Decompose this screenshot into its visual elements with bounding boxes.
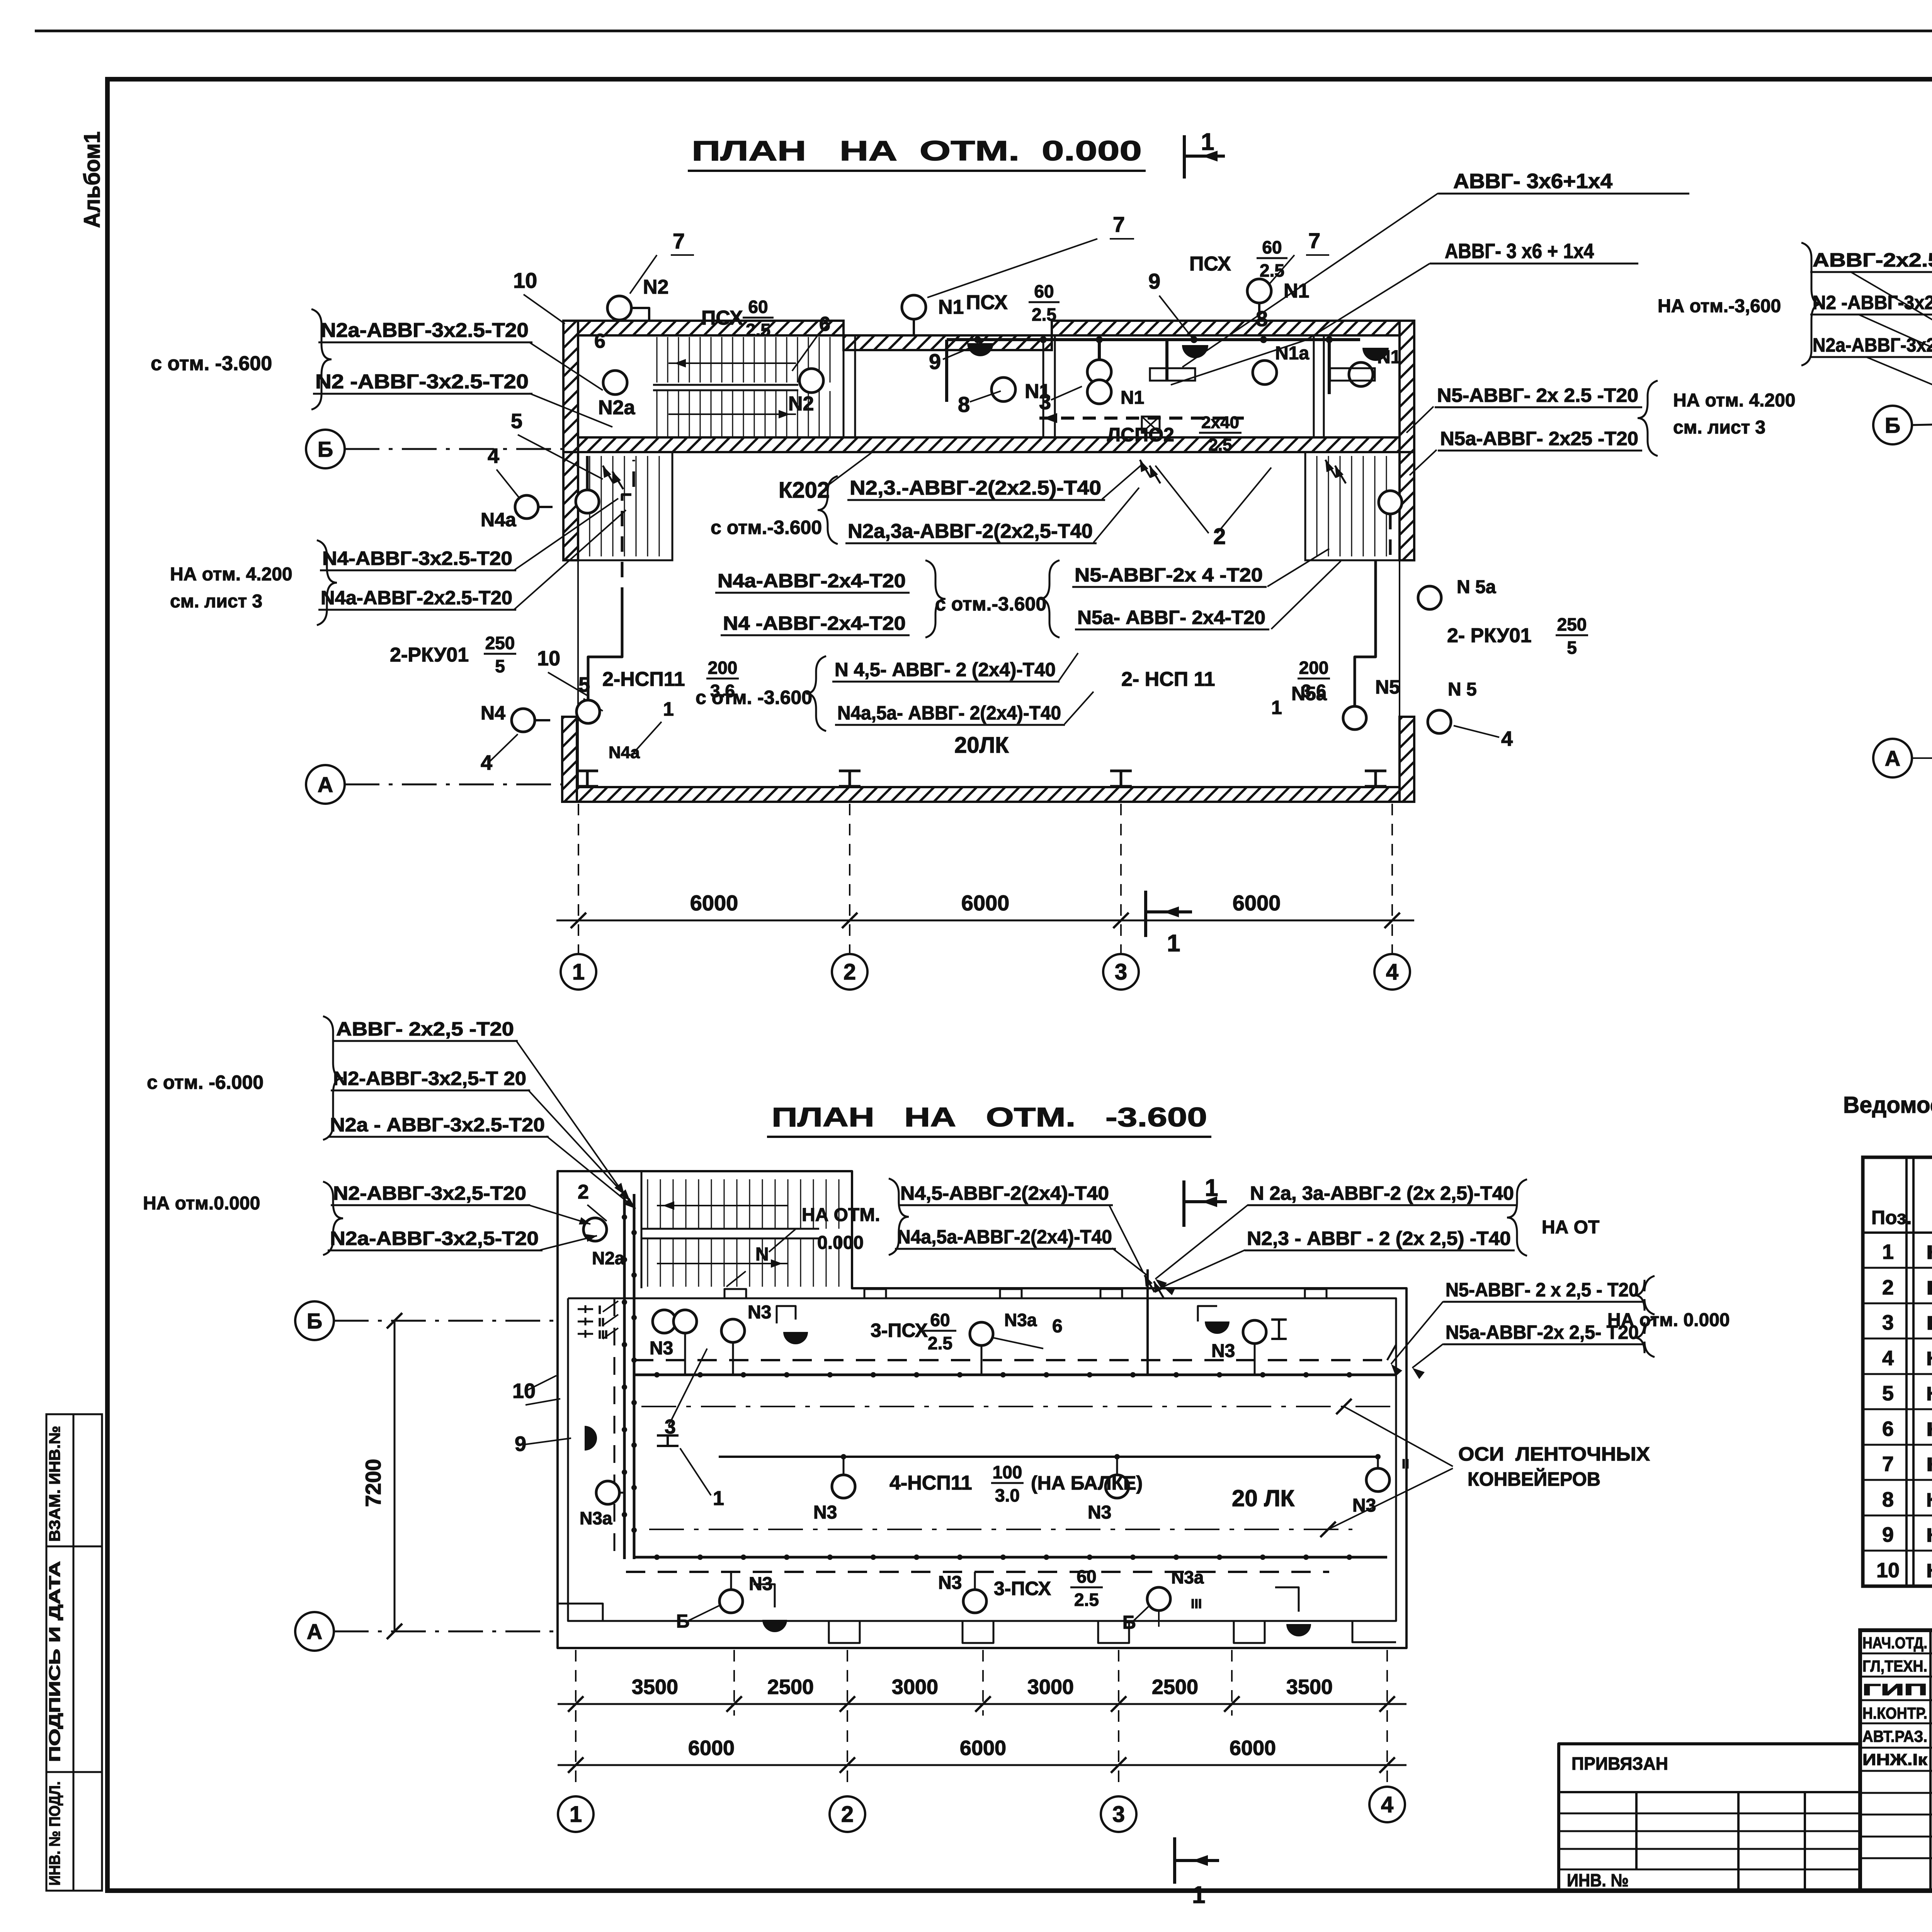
svg-text:N2: N2	[643, 276, 668, 298]
svg-text:1: 1	[1167, 930, 1180, 957]
svg-text:Комплект установки выключа: Комплект установки выключателя 0-I-IР 44…	[1926, 1560, 1932, 1582]
svg-text:200: 200	[708, 658, 738, 678]
svg-text:20ЛК: 20ЛК	[954, 733, 1009, 758]
svg-text:Концевое крепление троса к: Концевое крепление троса к железобетонно…	[1926, 1242, 1932, 1263]
svg-text:ВЗАМ. ИНВ.№: ВЗАМ. ИНВ.№	[46, 1426, 63, 1542]
svg-text:N4-АВВГ-3х2.5-Т20: N4-АВВГ-3х2.5-Т20	[322, 548, 512, 569]
svg-text:ПРИВЯЗАН: ПРИВЯЗАН	[1571, 1753, 1668, 1774]
svg-text:N2а-АВВГ-3х2,5-Т20: N2а-АВВГ-3х2,5-Т20	[1813, 334, 1932, 356]
svg-text:Ведомость узлов установки: Ведомость узлов установки электрического…	[1843, 1092, 1932, 1118]
svg-text:60: 60	[1077, 1566, 1096, 1587]
svg-text:20 ЛК: 20 ЛК	[1232, 1485, 1295, 1511]
svg-text:N5а-АВВГ- 2х25 -Т20: N5а-АВВГ- 2х25 -Т20	[1440, 428, 1638, 449]
svg-text:N3: N3	[748, 1302, 771, 1323]
svg-text:НА ОТ: НА ОТ	[1542, 1217, 1599, 1238]
svg-text:Комплект установки ящика ЯТ: Комплект установки ящика ЯТП- 0.25 НА СТ…	[1926, 1312, 1932, 1334]
svg-text:3000: 3000	[892, 1675, 938, 1699]
svg-text:N4а: N4а	[609, 743, 640, 762]
svg-text:Б: Б	[1122, 1612, 1136, 1633]
svg-text:3-ПСХ: 3-ПСХ	[871, 1320, 928, 1341]
svg-text:5: 5	[1567, 638, 1577, 658]
svg-text:6000: 6000	[961, 891, 1010, 915]
svg-text:N2а - АВВГ-3х2.5-Т20: N2а - АВВГ-3х2.5-Т20	[330, 1114, 545, 1136]
svg-text:НА отм. 4.200: НА отм. 4.200	[1673, 390, 1796, 411]
svg-text:1: 1	[570, 1802, 582, 1827]
svg-text:3.0: 3.0	[995, 1485, 1020, 1505]
svg-text:Комплект установки светиль: Комплект установки светильника ПСХ-60 НА…	[1926, 1418, 1932, 1440]
svg-text:2: 2	[1882, 1276, 1894, 1299]
svg-text:N2а: N2а	[592, 1248, 625, 1268]
svg-text:5: 5	[1882, 1382, 1894, 1405]
svg-text:III: III	[598, 1328, 608, 1341]
svg-text:ИНВ. №: ИНВ. №	[1567, 1870, 1629, 1890]
svg-text:N2,3.-АВВГ-2(2х2.5)-Т40: N2,3.-АВВГ-2(2х2.5)-Т40	[850, 477, 1101, 499]
svg-text:Б: Б	[318, 437, 333, 461]
svg-text:6: 6	[1882, 1417, 1894, 1440]
svg-text:1: 1	[663, 698, 674, 720]
svg-text:7200: 7200	[361, 1459, 385, 1507]
svg-text:Альбом1: Альбом1	[80, 131, 105, 228]
svg-text:9: 9	[1148, 269, 1160, 293]
svg-text:N4 -АВВГ-2х4-Т20: N4 -АВВГ-2х4-Т20	[723, 612, 906, 634]
svg-text:10: 10	[537, 647, 560, 670]
svg-text:4: 4	[1386, 959, 1398, 985]
svg-text:9: 9	[929, 349, 941, 374]
svg-text:N3: N3	[1352, 1495, 1376, 1516]
svg-text:N3: N3	[938, 1573, 962, 1593]
svg-text:N2а,3а-АВВГ-2(2х2,5-Т40: N2а,3а-АВВГ-2(2х2,5-Т40	[848, 520, 1093, 543]
svg-text:А: А	[318, 772, 333, 797]
svg-text:II: II	[598, 1316, 605, 1329]
svg-text:3500: 3500	[1286, 1675, 1333, 1699]
svg-text:N 4,5- АВВГ- 2 (2х4)-Т40: N 4,5- АВВГ- 2 (2х4)-Т40	[835, 659, 1056, 680]
svg-text:3: 3	[1882, 1311, 1894, 1334]
svg-text:ЛСПО2: ЛСПО2	[1107, 424, 1174, 446]
svg-text:N1а: N1а	[1275, 343, 1309, 364]
svg-text:N 5: N 5	[1448, 679, 1477, 700]
svg-text:2: 2	[578, 1181, 589, 1203]
svg-text:N3а: N3а	[1171, 1567, 1204, 1587]
svg-text:2: 2	[1213, 524, 1226, 549]
svg-text:с отм.-3.600: с отм.-3.600	[711, 517, 822, 538]
svg-text:ИНЖ.Iк: ИНЖ.Iк	[1862, 1750, 1928, 1769]
svg-text:1: 1	[713, 1487, 724, 1510]
svg-text:N5а- АВВГ- 2х4-Т20: N5а- АВВГ- 2х4-Т20	[1077, 607, 1265, 628]
svg-text:Комплект установки щитка ЯО: Комплект установки щитка ЯОУ- 850I НА СТ…	[1926, 1277, 1932, 1299]
svg-text:АВВГ- 2х2,5 -Т20: АВВГ- 2х2,5 -Т20	[336, 1018, 514, 1040]
svg-text:АВВГ-2х2.5-Т20: АВВГ-2х2.5-Т20	[1813, 249, 1932, 271]
svg-text:1: 1	[1205, 1175, 1218, 1201]
svg-text:6: 6	[594, 330, 605, 352]
svg-text:2-НСП11: 2-НСП11	[602, 668, 685, 690]
svg-text:4: 4	[488, 444, 499, 468]
svg-text:N: N	[755, 1244, 769, 1265]
svg-text:6000: 6000	[688, 1736, 735, 1760]
svg-text:3-ПСХ: 3-ПСХ	[994, 1578, 1051, 1599]
svg-text:ОСИ ЛЕНТОЧНЫХ: ОСИ ЛЕНТОЧНЫХ	[1458, 1443, 1650, 1465]
svg-text:9: 9	[515, 1432, 526, 1456]
svg-text:с отм. -3.600: с отм. -3.600	[696, 687, 812, 708]
svg-text:2500: 2500	[767, 1675, 814, 1699]
svg-text:ПОДПИСЬ И ДАТА: ПОДПИСЬ И ДАТА	[46, 1561, 63, 1762]
svg-text:6000: 6000	[690, 891, 738, 915]
svg-text:1: 1	[1271, 697, 1282, 718]
svg-text:N3: N3	[813, 1502, 837, 1523]
svg-text:2х40: 2х40	[1201, 413, 1239, 432]
svg-text:N 2а, 3а-АВВГ-2 (2х 2,5)-Т40: N 2а, 3а-АВВГ-2 (2х 2,5)-Т40	[1250, 1182, 1514, 1204]
svg-text:2.5: 2.5	[1260, 260, 1284, 281]
svg-text:N2а-АВВГ-3х2,5-Т20: N2а-АВВГ-3х2,5-Т20	[330, 1228, 539, 1249]
svg-text:7: 7	[1113, 212, 1125, 236]
svg-text:3: 3	[1115, 959, 1127, 985]
svg-text:АВВГ- 3х6+1х4: АВВГ- 3х6+1х4	[1453, 170, 1612, 193]
svg-text:6: 6	[819, 313, 830, 335]
svg-text:6000: 6000	[1230, 1736, 1276, 1760]
svg-text:НА отм.-3,600: НА отм.-3,600	[1658, 296, 1781, 316]
svg-text:N2 -АВВГ-3х2.5-Т20: N2 -АВВГ-3х2.5-Т20	[1813, 292, 1932, 313]
svg-text:НА ОТМ.: НА ОТМ.	[802, 1205, 880, 1225]
svg-text:2.5: 2.5	[1032, 304, 1056, 325]
svg-text:4-НСП11: 4-НСП11	[889, 1472, 972, 1494]
svg-text:ИНВ. № ПОДЛ.: ИНВ. № ПОДЛ.	[46, 1781, 63, 1886]
svg-text:2: 2	[844, 959, 856, 985]
svg-text:N5-АВВГ-2х 4 -Т20: N5-АВВГ-2х 4 -Т20	[1075, 564, 1263, 586]
svg-text:ПСХ: ПСХ	[1189, 253, 1231, 275]
svg-text:N4а-АВВГ-2х4-Т20: N4а-АВВГ-2х4-Т20	[718, 570, 906, 592]
svg-text:АВВГ- 3 х6 + 1х4: АВВГ- 3 х6 + 1х4	[1445, 240, 1594, 263]
svg-text:N3а: N3а	[580, 1508, 612, 1528]
svg-text:N4а,5а- АВВГ- 2(2х4)-Т40: N4а,5а- АВВГ- 2(2х4)-Т40	[837, 702, 1061, 724]
svg-text:ПСХ: ПСХ	[966, 291, 1008, 314]
svg-text:НА отм. 0.000: НА отм. 0.000	[1607, 1310, 1730, 1330]
svg-text:N4а: N4а	[481, 509, 517, 531]
svg-text:N2-АВВГ-3х2,5-Т 20: N2-АВВГ-3х2,5-Т 20	[333, 1068, 526, 1089]
svg-text:N4а-АВВГ-2х2.5-Т20: N4а-АВВГ-2х2.5-Т20	[321, 587, 512, 609]
svg-text:2-РКУ01: 2-РКУ01	[390, 644, 469, 666]
svg-text:60: 60	[930, 1310, 950, 1330]
svg-text:N1: N1	[1121, 388, 1144, 408]
svg-text:N3а: N3а	[1004, 1310, 1037, 1330]
svg-text:N2 -АВВГ-3х2.5-Т20: N2 -АВВГ-3х2.5-Т20	[315, 371, 529, 393]
svg-text:10: 10	[1876, 1559, 1900, 1582]
svg-text:II: II	[1402, 1457, 1409, 1471]
svg-text:НАЧ.ОТД.: НАЧ.ОТД.	[1862, 1634, 1927, 1652]
svg-text:Поз.: Поз.	[1871, 1207, 1912, 1228]
svg-text:1: 1	[1192, 1882, 1205, 1908]
svg-text:5: 5	[511, 410, 522, 433]
svg-text:2: 2	[841, 1802, 854, 1827]
svg-text:8: 8	[1882, 1488, 1894, 1511]
svg-text:2- НСП 11: 2- НСП 11	[1121, 668, 1215, 690]
svg-text:N4а,5а-АВВГ-2(2х4)-Т40: N4а,5а-АВВГ-2(2х4)-Т40	[897, 1226, 1112, 1248]
svg-text:7: 7	[1308, 228, 1320, 253]
svg-text:см. лист 3: см. лист 3	[170, 591, 262, 612]
svg-text:5: 5	[495, 656, 505, 676]
svg-text:Комплект установки светильни: Комплект установки светильника НСП 11 - …	[1926, 1489, 1932, 1511]
svg-text:Б: Б	[307, 1309, 322, 1333]
svg-text:60: 60	[1262, 237, 1282, 257]
svg-text:7: 7	[1882, 1452, 1894, 1476]
svg-text:N2-АВВГ-3х2,5-Т20: N2-АВВГ-3х2,5-Т20	[333, 1182, 526, 1204]
svg-text:250: 250	[485, 633, 515, 653]
svg-text:2500: 2500	[1152, 1675, 1198, 1699]
svg-text:8: 8	[958, 392, 970, 417]
svg-text:ПСХ: ПСХ	[701, 307, 743, 329]
svg-text:Комплект установки светильни: Комплект установки светильника НСП11- 20…	[1926, 1383, 1932, 1405]
svg-text:3: 3	[1039, 389, 1051, 414]
svg-text:Б: Б	[1885, 413, 1900, 437]
svg-text:200: 200	[1299, 658, 1329, 678]
svg-text:Комплект наружной установк: Комплект наружной установки светильника …	[1926, 1454, 1932, 1475]
svg-text:2.5: 2.5	[928, 1333, 952, 1353]
svg-text:9: 9	[1882, 1523, 1894, 1546]
svg-text:N2: N2	[788, 393, 814, 415]
svg-text:4: 4	[1501, 727, 1513, 750]
svg-text:А: А	[307, 1619, 322, 1644]
svg-text:N2,3 - АВВГ - 2 (2х 2,5) -Т40: N2,3 - АВВГ - 2 (2х 2,5) -Т40	[1247, 1228, 1511, 1249]
svg-text:4: 4	[1882, 1347, 1894, 1370]
svg-text:60: 60	[748, 297, 768, 317]
svg-text:N5: N5	[1375, 676, 1400, 698]
svg-text:3: 3	[1112, 1802, 1125, 1827]
svg-text:Комплект установки светильни: Комплект установки светильника РКУ0I - 2…	[1926, 1348, 1932, 1369]
svg-text:Б: Б	[676, 1611, 690, 1632]
svg-text:10: 10	[512, 1379, 536, 1403]
svg-text:N2а-АВВГ-3х2.5-Т20: N2а-АВВГ-3х2.5-Т20	[321, 319, 529, 342]
svg-text:(НА БАЛКЕ): (НА БАЛКЕ)	[1031, 1472, 1143, 1494]
svg-text:7: 7	[673, 229, 685, 253]
svg-text:N2а: N2а	[598, 396, 635, 419]
svg-text:10: 10	[513, 268, 537, 293]
svg-text:N5а: N5а	[1291, 683, 1327, 704]
svg-text:2.5: 2.5	[1074, 1590, 1099, 1610]
svg-text:1: 1	[1201, 129, 1214, 155]
svg-text:К202: К202	[779, 478, 830, 503]
svg-text:4: 4	[481, 751, 492, 774]
svg-text:2.5: 2.5	[1208, 435, 1232, 454]
svg-text:7200: 7200	[1930, 539, 1932, 587]
svg-text:N4,5-АВВГ-2(2х4)-Т40: N4,5-АВВГ-2(2х4)-Т40	[900, 1182, 1109, 1204]
svg-text:III: III	[1191, 1597, 1202, 1611]
svg-text:с отм. -6.000: с отм. -6.000	[147, 1071, 264, 1093]
svg-text:А: А	[1885, 746, 1900, 770]
svg-text:Н.КОНТР.: Н.КОНТР.	[1862, 1704, 1927, 1722]
svg-text:N 5а: N 5а	[1457, 577, 1496, 597]
svg-text:N3: N3	[650, 1338, 673, 1359]
svg-text:0.000: 0.000	[817, 1233, 864, 1253]
svg-text:I: I	[598, 1304, 601, 1316]
svg-text:ГИП: ГИП	[1862, 1680, 1927, 1699]
svg-text:6000: 6000	[1233, 891, 1281, 915]
svg-text:6000: 6000	[960, 1736, 1006, 1760]
svg-text:3000: 3000	[1027, 1675, 1074, 1699]
svg-text:НА отм. 4.200: НА отм. 4.200	[170, 564, 293, 585]
svg-text:250: 250	[1557, 614, 1587, 634]
svg-text:N1: N1	[938, 296, 964, 318]
svg-text:НА отм.0.000: НА отм.0.000	[143, 1193, 260, 1214]
svg-text:2.5: 2.5	[746, 320, 770, 340]
svg-text:КОНВЕЙЕРОВ: КОНВЕЙЕРОВ	[1468, 1468, 1600, 1490]
svg-text:Комплект установки розетки: Комплект установки розетки РШ-П-2-0-IР43…	[1926, 1524, 1932, 1546]
svg-text:N5-АВВГ- 2 х 2,5 - Т20: N5-АВВГ- 2 х 2,5 - Т20	[1446, 1279, 1639, 1301]
svg-text:60: 60	[1034, 281, 1054, 301]
svg-text:АВТ.РАЗ.: АВТ.РАЗ.	[1862, 1727, 1927, 1745]
svg-text:6: 6	[1052, 1316, 1063, 1337]
svg-text:100: 100	[993, 1462, 1022, 1482]
svg-text:с отм.-3.600: с отм.-3.600	[935, 593, 1046, 615]
svg-text:см. лист 3: см. лист 3	[1673, 417, 1765, 438]
svg-text:с отм. -3.600: с отм. -3.600	[151, 352, 272, 375]
svg-text:ПЛАН НА ОТМ. -3.600: ПЛАН НА ОТМ. -3.600	[772, 1102, 1207, 1132]
svg-text:4: 4	[1381, 1792, 1393, 1817]
svg-text:N5-АВВГ- 2х 2.5 -Т20: N5-АВВГ- 2х 2.5 -Т20	[1437, 384, 1638, 406]
svg-text:3500: 3500	[632, 1675, 678, 1699]
svg-text:N4: N4	[481, 702, 505, 724]
svg-text:N3: N3	[1088, 1502, 1111, 1523]
svg-text:1: 1	[572, 959, 585, 985]
svg-text:ПЛАН НА ОТМ. 0.000: ПЛАН НА ОТМ. 0.000	[692, 136, 1142, 167]
svg-text:N3: N3	[1211, 1341, 1235, 1361]
svg-text:1: 1	[1882, 1240, 1894, 1264]
svg-text:ГЛ,ТЕХН.: ГЛ,ТЕХН.	[1862, 1657, 1927, 1675]
svg-text:2- РКУ01: 2- РКУ01	[1447, 624, 1532, 647]
